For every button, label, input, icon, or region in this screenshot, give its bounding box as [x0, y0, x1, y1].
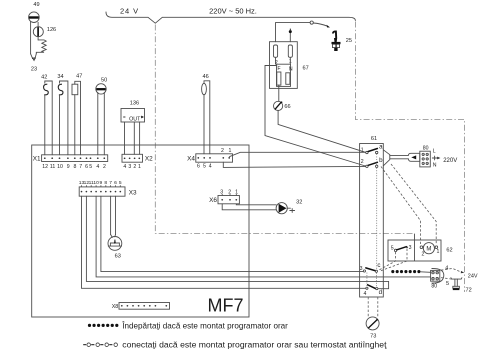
svg-text:4: 4: [209, 164, 212, 170]
sensor 42: [41, 74, 52, 155]
svg-text:X2: X2: [145, 156, 153, 163]
svg-text:1: 1: [138, 164, 141, 170]
svg-text:4: 4: [123, 164, 126, 170]
sensor 50: [96, 77, 107, 155]
svg-text:25: 25: [346, 38, 352, 44]
svg-text:6: 6: [197, 164, 200, 170]
wire 49 left lead: [30, 22, 32, 54]
svg-text:5: 5: [203, 164, 206, 170]
svg-text:1: 1: [437, 249, 440, 255]
svg-text:2: 2: [361, 159, 364, 165]
svg-text:d: d: [379, 289, 383, 296]
svg-text:X1: X1: [33, 156, 41, 163]
earth terminal 72: [451, 278, 472, 294]
svg-text:X4: X4: [187, 155, 195, 162]
relay contact b: [361, 157, 383, 167]
relay 61: [360, 136, 384, 297]
svg-text:220V: 220V: [443, 158, 457, 164]
svg-text:5: 5: [446, 281, 449, 287]
svg-text:3: 3: [409, 245, 412, 251]
wire dashed neutral to motor right: [391, 164, 436, 244]
sensor 34: [57, 74, 68, 155]
wire X6 pin1 to pump: [236, 204, 276, 205]
node 24V bus bracket: [106, 12, 355, 23]
svg-text:32: 32: [296, 200, 302, 206]
wire fuse F to line terminal: [265, 66, 365, 167]
connector X6: [209, 194, 239, 204]
plug on mains cable: [408, 153, 420, 161]
wire mechanical link a-b-c: [376, 154, 378, 165]
svg-text:62: 62: [446, 248, 452, 254]
pump 32: [276, 200, 302, 214]
svg-text:L: L: [433, 148, 436, 154]
svg-text:8: 8: [74, 164, 77, 170]
connector X2 pin labels: [123, 164, 141, 170]
svg-text:3: 3: [220, 189, 223, 195]
svg-text:3: 3: [128, 164, 131, 170]
svg-text:10: 10: [57, 164, 63, 170]
wire X3 pin13 to contact d left: [82, 196, 366, 288]
svg-text:N: N: [433, 162, 437, 168]
svg-text:72: 72: [466, 288, 472, 294]
wire 136 to X2 pin4: [124, 122, 126, 154]
relay contact d: [363, 285, 382, 297]
svg-text:63: 63: [115, 253, 121, 259]
thermal fuse 66: [274, 101, 291, 110]
svg-text:80: 80: [423, 146, 429, 152]
spark plug 25: [332, 31, 353, 51]
svg-text:N: N: [289, 66, 293, 72]
svg-text:49: 49: [33, 2, 39, 8]
wire dash-dot boundary 24V/220V left: [155, 25, 413, 234]
wire dashed phase to motor left: [381, 167, 421, 245]
sensor 49: [29, 2, 40, 23]
svg-text:42: 42: [41, 74, 47, 80]
relay contact a: [361, 143, 383, 153]
svg-text:24 V: 24 V: [120, 7, 139, 16]
wire 136 to X2 pin2: [133, 122, 135, 154]
wire X3 pin9 to contact c: [101, 196, 363, 271]
svg-text:1: 1: [361, 147, 364, 153]
svg-text:220V ~ 50 Hz.: 220V ~ 50 Hz.: [209, 7, 257, 16]
wire 49 right lead: [37, 22, 39, 40]
svg-text:136: 136: [130, 101, 139, 107]
svg-text:34: 34: [57, 74, 63, 80]
svg-text:2: 2: [133, 164, 136, 170]
board MF7 outline: [32, 145, 249, 317]
relay output funnel to cable: [383, 150, 408, 166]
svg-text:4: 4: [363, 291, 366, 297]
svg-text:2: 2: [103, 164, 106, 170]
igniter 63: [108, 196, 122, 259]
DC source 136: [121, 101, 145, 123]
svg-text:126: 126: [47, 27, 56, 33]
connector X3 pin labels: [79, 180, 122, 186]
svg-text:b: b: [379, 157, 383, 164]
connector 80b: [431, 268, 444, 289]
svg-text:4: 4: [96, 164, 99, 170]
connector 80: [420, 146, 457, 169]
svg-text:c: c: [377, 262, 380, 269]
legend connect symbol: [83, 343, 117, 347]
svg-text:conectaţi dacă este montat pro: conectaţi dacă este montat programator o…: [122, 340, 387, 350]
resistor 47: [72, 73, 82, 155]
fan motor M in 62: [420, 243, 439, 258]
svg-text:9: 9: [67, 164, 70, 170]
wire X4 pin2 to relay contact 2: [223, 162, 365, 167]
wire fuse F bottom to 66: [278, 85, 280, 101]
svg-text:M: M: [426, 247, 431, 253]
wire X3 pin12 to contact d right: [86, 196, 388, 289]
connector X1 pin labels: [42, 164, 106, 170]
thermostat 73: [366, 317, 379, 340]
svg-text:46: 46: [202, 74, 208, 80]
svg-text:4: 4: [445, 265, 448, 271]
svg-text:50: 50: [101, 77, 107, 83]
relay contact c: [360, 262, 381, 272]
wire mechanical link c-d: [366, 273, 368, 287]
svg-text:2: 2: [221, 148, 224, 154]
wire dash-dot boundary 220V right: [355, 22, 464, 293]
svg-text:X3: X3: [129, 189, 137, 196]
svg-text:7: 7: [79, 164, 82, 170]
connector X4 pin labels: [197, 148, 231, 170]
connector X4: [187, 154, 232, 163]
svg-text:80: 80: [431, 284, 437, 290]
connector X1: [33, 155, 108, 163]
svg-text:66: 66: [284, 104, 290, 110]
svg-text:47: 47: [76, 73, 82, 79]
svg-text:23: 23: [31, 67, 37, 73]
svg-text:1: 1: [228, 148, 231, 154]
wire dashed 5 to earth 72: [441, 278, 452, 287]
svg-text:X8: X8: [112, 304, 119, 310]
wire X4 pin1 to relay contact 1: [230, 152, 365, 156]
legend removable symbol: [88, 324, 119, 327]
connector X8: [112, 303, 170, 311]
wire X3 pin10 to connector 80b: [96, 196, 431, 277]
wire removable link bullets: [391, 270, 420, 273]
earth pin above fuse 1: [289, 29, 292, 42]
svg-text:5: 5: [89, 164, 92, 170]
wire 66 to relay contact 1: [278, 111, 365, 153]
svg-text:Îndepărtaţi dacă este montat p: Îndepărtaţi dacă este montat programator…: [121, 321, 288, 330]
svg-text:3: 3: [360, 266, 363, 272]
wire dashed d to 73: [367, 297, 369, 316]
wire bullets to connector 80b: [421, 271, 431, 274]
svg-text:61: 61: [371, 136, 377, 142]
pressure switch 5-3 in 62: [391, 245, 412, 252]
sensor 46: [202, 74, 210, 154]
svg-text:F: F: [277, 66, 280, 72]
wire X6 pin3 to pump: [222, 204, 276, 210]
svg-text:12: 12: [42, 164, 48, 170]
lamp 126: [33, 27, 56, 37]
svg-text:11: 11: [50, 164, 55, 170]
node open terminal on mains wire: [310, 21, 313, 24]
resistor heater element: [36, 40, 46, 54]
node 23 arrows: [31, 54, 38, 73]
connector X6 pin labels: [220, 189, 238, 195]
wire dashed switch to contact c links: [378, 252, 395, 271]
svg-text:X6: X6: [209, 197, 217, 204]
svg-text:67: 67: [303, 66, 309, 72]
svg-text:2: 2: [422, 252, 425, 258]
svg-text:5: 5: [391, 245, 394, 251]
wire dashed 4 to 24V: [441, 265, 478, 279]
wire 136 to X2 pin1: [139, 122, 141, 154]
fan box 62: [388, 234, 453, 261]
svg-text:a: a: [379, 143, 383, 150]
svg-text:6: 6: [85, 164, 88, 170]
connector X3: [79, 185, 137, 196]
connector X2: [122, 154, 153, 162]
svg-text:24V: 24V: [468, 273, 478, 279]
fuse block 67: [270, 42, 309, 89]
svg-text:MF7: MF7: [208, 296, 244, 316]
wire to spark plug 25: [313, 23, 327, 26]
wire mains feed to fuse 2: [276, 23, 311, 42]
